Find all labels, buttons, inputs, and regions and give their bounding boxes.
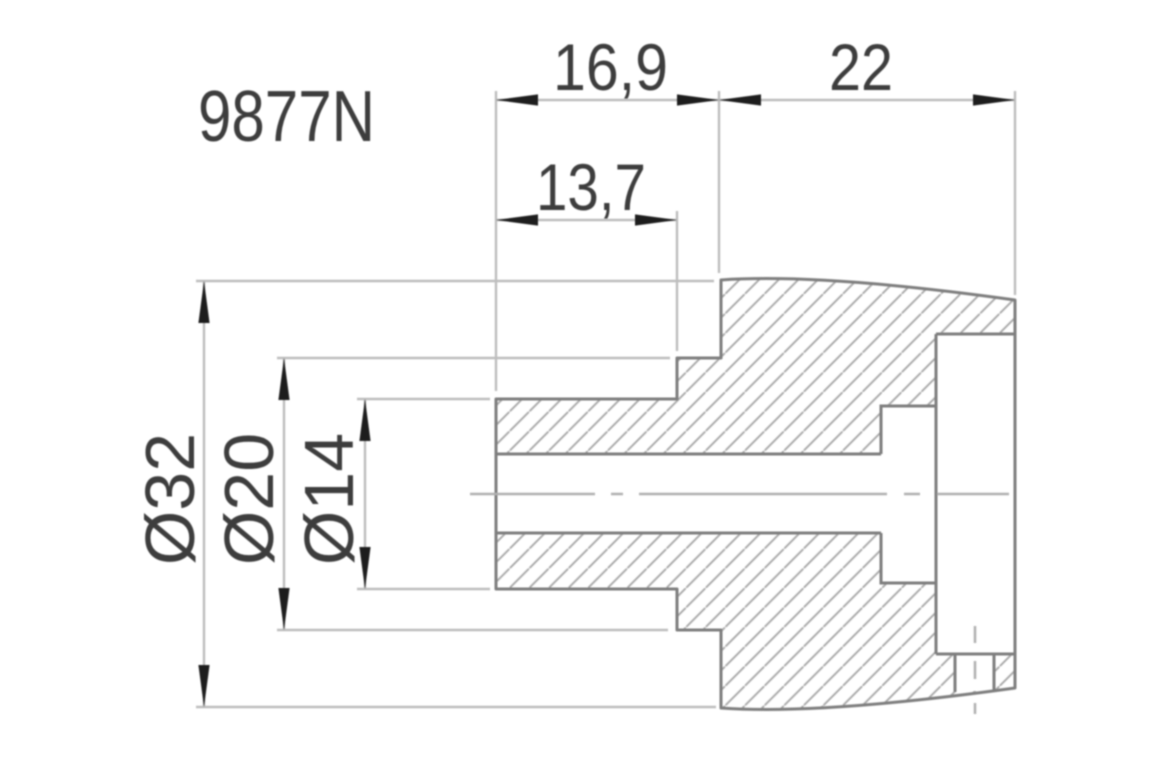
extension and dimension lines Ø32 (196, 281, 716, 707)
dimension Ø32 (131, 281, 716, 707)
bore Ø6 bottom line (496, 532, 881, 535)
bore Ø6 top line (496, 453, 881, 456)
vent hole centerline (974, 626, 977, 714)
svg-text:9877N: 9877N (198, 77, 375, 157)
arrowhead top Ø20 (278, 358, 289, 400)
small counterbore outline (881, 406, 936, 583)
dimension Ø20 (210, 358, 670, 630)
svg-text:16,9: 16,9 (553, 30, 668, 104)
arrowhead bottom Ø14 (359, 547, 370, 589)
large counterbore outline (936, 334, 1015, 654)
dimension 22 (719, 30, 1015, 295)
arrowhead bottom Ø32 (198, 665, 209, 707)
arrowhead right 22 (973, 94, 1015, 105)
svg-text:22: 22 (829, 30, 893, 104)
main centerline (470, 493, 1009, 496)
svg-text:Ø20: Ø20 (210, 433, 288, 565)
arrowhead top Ø32 (198, 281, 209, 323)
arrowhead right 16,9 (677, 94, 719, 105)
dimension 16,9 (496, 30, 719, 391)
svg-text:Ø14: Ø14 (290, 433, 368, 565)
extension and dimension lines 16,9 (496, 91, 719, 391)
arrowhead left 22 (719, 94, 761, 105)
extension and dimension lines Ø20 (277, 358, 670, 630)
section hatching (496, 279, 1015, 710)
arrowhead top Ø14 (359, 399, 370, 441)
arrowhead left 16,9 (496, 94, 538, 105)
extension and dimension lines 13,7 (496, 211, 677, 351)
arrowhead left 13,7 (496, 214, 538, 225)
dimension 13,7 (496, 150, 677, 351)
dimension Ø14 (290, 399, 490, 589)
extension and dimension lines Ø14 (357, 399, 490, 589)
extension and dimension lines 22 (719, 91, 1015, 295)
arrowhead right 13,7 (635, 214, 677, 225)
bottom vent hole (955, 654, 994, 692)
arrowhead bottom Ø20 (278, 588, 289, 630)
svg-text:Ø32: Ø32 (131, 433, 209, 565)
body outer profile (496, 279, 1015, 710)
svg-text:13,7: 13,7 (536, 150, 646, 224)
